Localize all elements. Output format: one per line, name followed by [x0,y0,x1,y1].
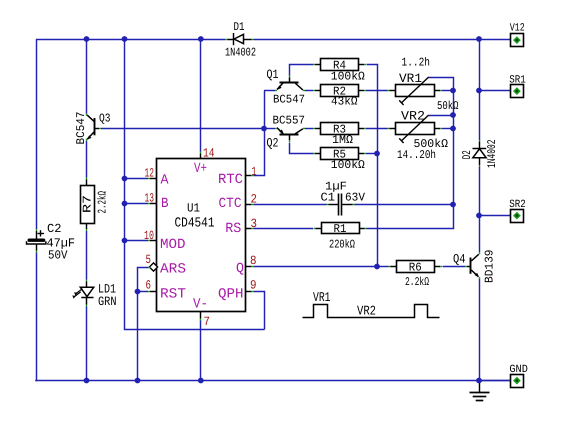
svg-text:43kΩ: 43kΩ [331,95,358,109]
svg-text:R1: R1 [334,222,347,236]
wire to SR1 [479,90,511,92]
wire RST stub [138,291,149,293]
svg-text:14..20h: 14..20h [397,148,436,162]
junction [261,126,267,132]
svg-text:63V: 63V [345,191,366,205]
svg-text:U1: U1 [187,202,200,216]
LED LD1 [71,280,116,309]
wire CTC to C1 [253,204,326,206]
wire to SR2 [479,215,511,217]
svg-text:7: 7 [204,315,211,329]
svg-text:CD4541: CD4541 [175,217,215,232]
svg-text:1MΩ: 1MΩ [332,133,353,147]
waveform diagram VR1/VR2 [303,290,440,319]
resistor R1 [314,222,367,251]
wire to pin B [125,203,149,205]
wire Q3 emitter to R7 [86,141,88,178]
svg-text:8: 8 [250,254,257,268]
IC U1 CD4541 [148,152,253,321]
wire ARS bend [138,268,149,292]
junction [122,176,128,182]
svg-text:2: 2 [251,193,258,207]
junction [135,378,141,384]
svg-text:RS: RS [225,221,241,237]
transistor Q2 [267,113,306,150]
junction [476,88,482,94]
resistor R6 [389,260,443,289]
svg-text:10: 10 [144,229,154,243]
svg-text:CTC: CTC [219,196,242,212]
wire VR1 wiper loop [429,78,454,91]
svg-text:13: 13 [145,192,155,206]
junction [122,201,128,207]
svg-text:ARS: ARS [160,262,186,278]
svg-text:BC547: BC547 [273,92,305,106]
junction [135,289,141,295]
wire Q3 base to node [101,128,264,130]
svg-text:6: 6 [146,279,152,293]
wire Q2 base to R5 [290,143,314,154]
wire VR2 wiper to rail [429,115,453,117]
svg-text:220kΩ: 220kΩ [329,237,355,251]
wire Q1 emitter [264,90,275,92]
svg-text:BC557: BC557 [273,113,306,127]
connector SR1 [509,74,526,97]
junction [198,36,204,42]
svg-text:D2: D2 [460,150,474,159]
wire V+ vertical [200,39,202,152]
junction [476,213,482,219]
wire R3 to VR2 [366,128,388,130]
wire Q2 emitter [264,128,275,130]
wire LD1 to bottom rail [86,307,88,381]
trimmer VR1 [388,55,459,113]
wire R6 to Q4 base [443,266,466,268]
svg-text:D1: D1 [234,20,245,34]
wire bottom rail [35,380,510,382]
transistor Q3 [74,111,111,144]
wire to pin MOD [125,240,149,242]
junction [476,36,482,42]
svg-text:QPH: QPH [218,287,244,303]
svg-text:SR1: SR1 [509,74,526,86]
wire Q1 base to R4 [290,65,314,76]
junction [122,238,128,244]
wire Q2 collector to R3 [305,128,313,130]
diode D1 [225,20,256,60]
wire R2 to VR1 [366,90,388,92]
resistor R5 [313,147,366,172]
IC U1 pin names [160,161,244,313]
svg-text:100kΩ: 100kΩ [331,158,365,172]
ground symbol [470,381,490,401]
svg-text:V+: V+ [194,161,207,177]
junction [374,151,380,157]
wire R5 to node [366,153,377,155]
transistor Q4 [453,250,497,284]
svg-text:R6: R6 [409,260,422,274]
svg-text:1..2h: 1..2h [402,55,431,69]
svg-text:RTC: RTC [218,172,243,188]
svg-text:Q: Q [236,261,244,277]
svg-text:VR1: VR1 [313,290,331,305]
wire VR1 right to rail [442,90,453,92]
capacitor C2 [27,222,76,262]
junction [374,264,380,270]
connector GND [509,364,528,388]
wire R4 to node rail x377 [367,65,378,267]
junction [450,126,456,132]
svg-text:Q1: Q1 [267,67,279,82]
wire VR2 right to rail [442,128,453,130]
svg-text:100kΩ: 100kΩ [331,70,365,84]
svg-text:1N4002: 1N4002 [485,140,499,169]
junction [450,112,456,118]
transistor Q1 [267,67,306,106]
svg-text:1: 1 [252,165,257,179]
wire to pin A [125,178,149,180]
svg-text:RST: RST [160,287,186,303]
wire QPH riser [254,292,265,330]
wire V- to bottom rail [200,321,202,381]
svg-text:BD139: BD139 [483,250,497,284]
wire rail x453 down to R1 [367,91,454,229]
svg-text:BC547: BC547 [74,112,88,145]
svg-text:B: B [161,196,169,212]
svg-text:3: 3 [251,217,258,231]
svg-text:R7: R7 [81,195,95,213]
wire RST to bottom rail [137,292,139,381]
wire top rail left of D1 [36,39,225,41]
wire to GND connector [479,380,511,382]
svg-text:2.2kΩ: 2.2kΩ [405,275,429,289]
junction [450,88,456,94]
svg-text:SR2: SR2 [509,199,526,211]
svg-text:Q3: Q3 [99,111,111,125]
svg-text:Q4: Q4 [453,251,466,266]
connector SR2 [509,199,526,223]
wire left rail lower [36,253,38,382]
wire Q1 collector to R2 [305,90,313,92]
svg-text:VR1: VR1 [399,71,422,86]
svg-text:GRN: GRN [98,294,117,309]
svg-text:2.2kΩ: 2.2kΩ [96,191,110,214]
svg-text:1N4002: 1N4002 [225,46,256,60]
junction [450,202,456,208]
svg-text:V12: V12 [510,23,525,35]
junction [476,378,482,384]
resistor R7 [81,178,110,232]
svg-text:C1: C1 [321,191,336,205]
wire C1 to rail x453 [355,204,454,206]
svg-text:MOD: MOD [160,237,186,253]
svg-text:50V: 50V [48,248,68,262]
junction [198,378,204,384]
connector V12 [510,23,525,47]
wire Q3 collector rail [86,39,88,114]
junction [122,36,128,42]
svg-text:14: 14 [203,147,215,161]
wire Q output to node [253,266,377,268]
wire node to R6 [377,266,389,268]
wire R7 to LD1 [86,231,88,280]
svg-text:9: 9 [250,279,257,293]
svg-text:VR2: VR2 [357,304,376,319]
wire RS to R1 [253,228,313,230]
svg-text:5: 5 [146,253,152,267]
svg-text:50kΩ: 50kΩ [437,99,459,113]
svg-text:C2: C2 [47,222,62,236]
capacitor C1 [321,179,366,215]
wire RTC riser [254,91,265,176]
junction [84,36,90,42]
wire Q4 emitter to bottom rail [479,279,481,381]
resistor R4 [313,58,366,83]
IC U1 labels [175,202,215,232]
svg-text:Q2: Q2 [267,136,279,151]
wire V12 rail upper [479,39,481,140]
wire left rail upper [36,39,38,229]
resistor R3 [313,122,366,146]
trimmer VR2 [388,108,449,162]
svg-text:V-: V- [193,297,208,313]
wire A/B/MOD rail [125,40,265,330]
wire D2 to Q4 collector [479,167,481,253]
svg-text:A: A [161,173,170,189]
junction [84,378,90,384]
svg-text:12: 12 [145,167,155,181]
wire top rail right of D1 to V12 [254,39,511,41]
svg-text:VR2: VR2 [401,108,425,123]
svg-text:GND: GND [509,364,528,376]
resistor R2 [313,84,366,108]
IC U1 pin numbers [144,147,257,330]
diode D2 [460,140,499,169]
